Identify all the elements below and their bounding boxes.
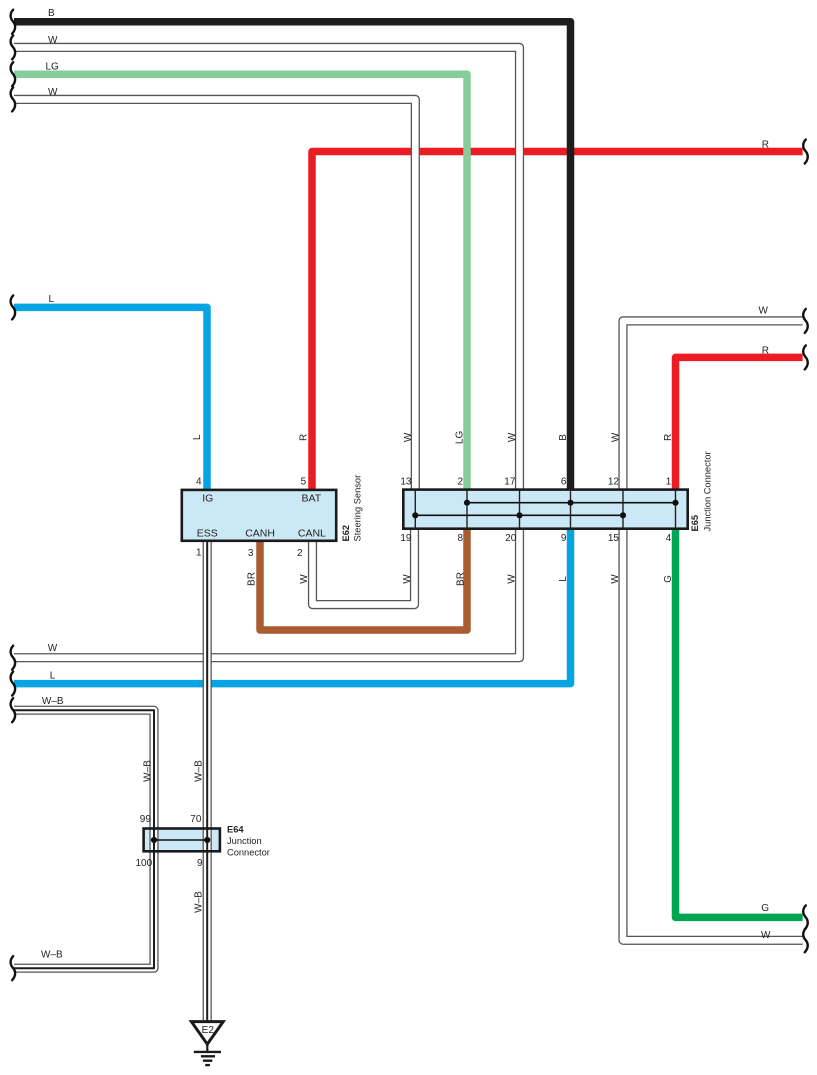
connector E64 box fill [144,829,220,852]
svg-text:BR: BR [455,572,466,586]
svg-text:Junction Connector: Junction Connector [703,451,713,531]
svg-text:8: 8 [457,533,463,544]
svg-text:W: W [507,432,518,442]
svg-text:W: W [402,574,413,584]
svg-text:CANH: CANH [245,527,275,539]
svg-text:L: L [50,670,56,681]
connector E65 border [403,490,687,529]
svg-text:Junction: Junction [227,836,262,846]
ground symbol E2 [191,1022,223,1066]
svg-text:BAT: BAT [301,493,321,505]
svg-text:4: 4 [196,476,202,487]
wire W from E65 pin 15 to bottom right break [623,528,803,940]
svg-text:LG: LG [455,431,466,445]
svg-text:3: 3 [248,548,254,559]
svg-text:IG: IG [202,493,213,505]
svg-text:R: R [663,434,674,441]
junction dot E65 pin 15 [620,512,626,518]
rotated wire labels below connectors [142,572,674,913]
svg-text:99: 99 [140,814,152,825]
break symbols right edge [803,140,808,953]
svg-text:W: W [48,643,58,654]
svg-text:G: G [663,575,674,583]
svg-text:W: W [611,432,622,442]
svg-text:2: 2 [297,548,303,559]
svg-text:R: R [762,346,769,357]
svg-text:L: L [558,576,569,582]
E64 bus bar joining pins 99/70 [154,839,207,841]
svg-text:B: B [48,8,55,19]
junction dot E65 pin 6 [567,500,573,506]
svg-text:W: W [759,306,769,317]
E65 internal terminal lines [415,490,675,529]
svg-text:L: L [192,434,203,440]
svg-text:ESS: ESS [197,527,218,539]
svg-text:E64: E64 [227,824,244,834]
svg-text:W–B: W–B [42,696,64,707]
svg-text:W: W [506,574,517,584]
svg-text:100: 100 [136,858,153,869]
wire W from top right break to E65 pin 12 [623,321,803,490]
wire W from left break to E65 pin 13 [14,99,415,489]
svg-text:2: 2 [457,476,463,487]
svg-text:R: R [298,434,309,441]
svg-text:BR: BR [246,572,257,586]
svg-text:5: 5 [301,476,307,487]
svg-text:9: 9 [561,533,567,544]
svg-text:19: 19 [400,533,412,544]
svg-text:9: 9 [197,858,203,869]
junction dot E65 pin 20 [516,512,522,518]
wire R from right break to E65 pin 1 [676,357,803,489]
svg-text:70: 70 [190,814,202,825]
svg-text:13: 13 [400,476,412,487]
svg-text:W: W [403,432,414,442]
svg-text:E62: E62 [341,525,351,542]
svg-text:L: L [49,294,55,305]
wire L from left break to E65 pin 9 [14,528,571,683]
wire W-B from E62 pin 1 ESS through E64 pins 70/9 to ground E2 [203,542,212,1021]
svg-text:Connector: Connector [227,847,270,857]
wire B from left break to E65 pin 6 [14,22,571,490]
connector E62 box fill [182,490,336,541]
svg-text:W–B: W–B [142,760,153,782]
svg-text:17: 17 [504,476,516,487]
wire LG from left break to E65 pin 2 [14,74,467,489]
wire L from left break to E62 pin 4 IG [14,307,207,489]
junction dot E64 pin 70 [204,837,210,843]
junction dot E65 pin 2 [464,500,470,506]
break symbols left edge [11,10,16,981]
E65 lower bus bar joining pins 19,20,15 [415,514,623,516]
svg-text:Steering Sensor: Steering Sensor [353,475,363,542]
junction dot E64 pin 99 [151,837,157,843]
svg-text:12: 12 [608,476,620,487]
svg-text:W: W [48,35,58,46]
E65 upper bus bar joining pins 2,6,1 [467,502,676,504]
svg-text:6: 6 [561,476,567,487]
wire BR from E62 pin 3 CANH to E65 pin 8 [260,528,467,630]
svg-text:W: W [610,574,621,584]
connector E65 box fill [403,490,687,529]
connector E62 border [182,490,336,541]
svg-text:W: W [48,87,58,98]
svg-text:CANL: CANL [298,527,326,539]
svg-text:1: 1 [666,476,672,487]
wire W from E62 pin 2 CANL to E65 pin 19 [313,528,415,604]
svg-text:B: B [558,434,569,441]
rotated wire labels above connectors [192,431,674,445]
svg-text:R: R [762,140,769,151]
wire W from left break to E65 pin 17 [14,47,520,489]
svg-text:20: 20 [505,533,517,544]
svg-text:W–B: W–B [41,950,63,961]
wire G from E65 pin 4 to right break [676,528,803,917]
junction dot E65 pin 1 [672,500,678,506]
wire W from left break to E65 pin 20 [14,528,520,657]
svg-text:G: G [761,903,769,914]
wire W-B from left break through E64 pins 99/100 to bottom left break [14,710,154,968]
svg-text:W–B: W–B [193,891,204,913]
svg-text:15: 15 [608,533,620,544]
svg-text:E65: E65 [690,515,700,532]
svg-text:E2: E2 [202,1025,215,1036]
junction dot E65 pin 19 [412,512,418,518]
svg-text:1: 1 [196,548,202,559]
svg-text:LG: LG [46,61,60,72]
svg-text:W: W [299,574,310,584]
svg-text:W–B: W–B [193,760,204,782]
svg-text:4: 4 [666,533,672,544]
wire R from right break to E62 pin 5 BAT [312,152,803,490]
svg-text:W: W [761,930,771,941]
connector E64 border [144,829,220,852]
